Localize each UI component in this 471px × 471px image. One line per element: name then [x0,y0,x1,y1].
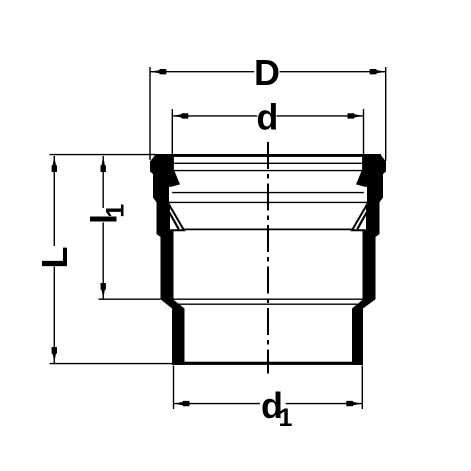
extension line left [149,67,151,160]
interior line seal seat top [169,201,367,203]
seal ring right [352,205,367,231]
dimension l1 [83,156,160,299]
arrow left [174,401,190,406]
bottom extension line [99,298,161,300]
arrow down [52,347,57,363]
dimension D [150,52,386,161]
arrow right [346,401,362,406]
arrow up [101,156,106,172]
interior line seal seat bottom [181,228,355,230]
arrow left [172,113,188,118]
arrow left [150,69,166,74]
centerline [267,142,269,374]
arrow right [348,113,364,118]
top extension line [50,154,157,156]
extension line right [385,67,387,161]
dimension L [34,155,172,364]
seal ring left [169,205,184,231]
svg-text:D: D [254,52,280,93]
socket body left wall (section fill) [150,154,185,365]
interior line socket depth shoulder top [174,298,363,300]
dimension d1 [174,366,363,433]
arrow down [101,283,106,299]
svg-text:1: 1 [279,404,293,432]
bottom edge [172,362,363,365]
arrow right [370,69,386,74]
top rim edge [155,154,381,157]
interior line socket depth shoulder bottom [179,303,358,305]
dimension line [150,71,254,73]
socket body right wall (section fill) [352,154,386,365]
svg-text:d: d [256,97,278,138]
interior line socket mouth [174,170,362,172]
interior line mouth chamfer [174,162,362,164]
bottom extension line [50,363,173,365]
dimension d [172,97,363,154]
arrow up [52,156,57,172]
svg-text:L: L [34,247,75,269]
interior line below seal lip [172,192,364,194]
